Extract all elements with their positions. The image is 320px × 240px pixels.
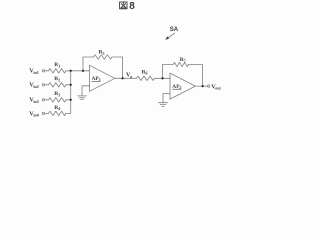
wire AP2 noninverting input to ground <box>163 94 170 103</box>
wire AP1 output to Va node <box>115 77 137 79</box>
svg-text:4: 4 <box>58 106 60 111</box>
wire AP2 output to Vout terminal <box>195 85 207 87</box>
svg-text:out: out <box>215 86 221 91</box>
wire R2 to summing bus <box>66 84 71 86</box>
input terminal Vin1 <box>42 70 44 72</box>
resistor R1 <box>49 69 66 73</box>
input terminal Vin2 <box>42 84 44 86</box>
resistor R4 <box>49 111 66 115</box>
junction AP2 output node <box>201 85 203 87</box>
resistor R7 <box>173 62 188 66</box>
wire R3 to summing bus <box>66 99 71 101</box>
svg-text:6: 6 <box>146 71 148 76</box>
svg-text:1: 1 <box>58 63 60 68</box>
svg-text:in2: in2 <box>33 84 38 89</box>
arrowhead SA <box>165 36 169 40</box>
resistor R6 <box>137 76 155 80</box>
svg-text:8: 8 <box>129 1 135 12</box>
input terminal Vin3 <box>42 99 44 101</box>
svg-text:5: 5 <box>103 51 105 56</box>
op-amp AP2 <box>170 73 195 99</box>
wire feedback tap up from node <box>83 57 94 71</box>
op-amp AP1 <box>90 65 115 91</box>
wire Vin2 to R2 <box>45 84 49 86</box>
wire Vin4 to R4 <box>45 112 49 114</box>
wire Vin1 to R1 <box>45 70 49 72</box>
junction AP1 feedback tap <box>82 70 84 72</box>
output terminal <box>208 85 210 87</box>
wire R4 to summing bus <box>66 112 71 114</box>
wire R1 to summing bus <box>66 70 71 72</box>
wire summing bus vertical <box>70 71 72 114</box>
svg-text:in4: in4 <box>33 113 38 118</box>
resistor R3 <box>49 98 66 102</box>
wire AP2 feedback up <box>163 65 174 79</box>
junction Va node <box>121 77 123 79</box>
arrow SA pointer <box>167 33 175 39</box>
svg-text:2: 2 <box>58 77 60 82</box>
ground AP2 <box>159 103 168 107</box>
wire R7 to output node <box>189 65 203 87</box>
input terminal Vin4 <box>42 112 44 114</box>
junction bus node <box>70 70 72 72</box>
wire R5 to output node <box>112 57 123 78</box>
resistor R5 <box>94 55 112 59</box>
svg-text:7: 7 <box>184 58 186 63</box>
junction bus node <box>70 84 72 86</box>
junction bus node <box>70 99 72 101</box>
ground AP1 <box>78 96 87 100</box>
svg-text:a: a <box>130 74 132 79</box>
svg-text:3: 3 <box>58 92 60 97</box>
svg-text:in3: in3 <box>33 99 38 104</box>
title figure glyph 図 <box>120 2 127 9</box>
junction AP2 input node <box>161 77 163 79</box>
wire AP1 noninverting input to ground <box>82 86 90 96</box>
resistor R2 <box>49 83 66 87</box>
wire Vin3 to R3 <box>45 99 49 101</box>
svg-text:in1: in1 <box>33 70 38 75</box>
wire bus to AP1 inverting input <box>71 70 90 72</box>
svg-text:SA: SA <box>170 27 179 33</box>
wire R6 to AP2 inverting input <box>155 77 171 79</box>
